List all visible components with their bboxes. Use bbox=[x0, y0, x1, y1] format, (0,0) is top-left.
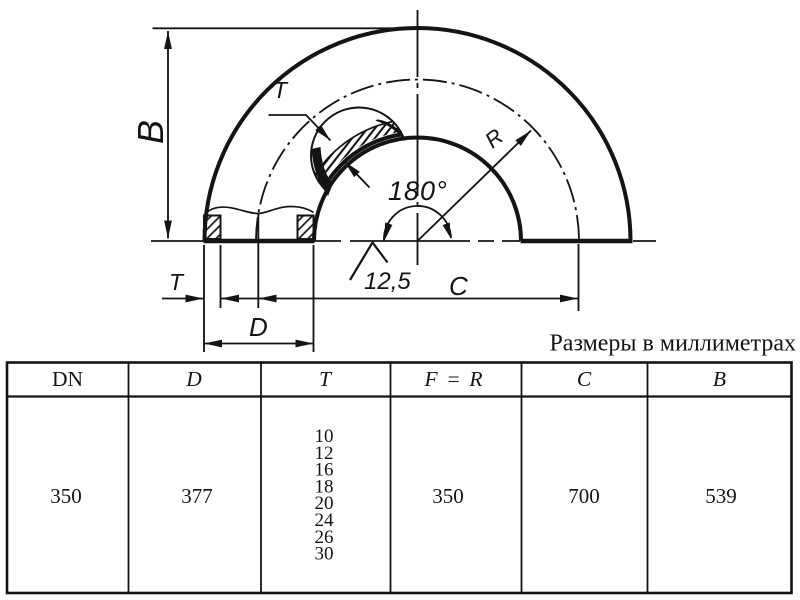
svg-text:B: B bbox=[713, 367, 726, 391]
extension line left inner bbox=[220, 245, 222, 308]
baseline left extension bbox=[151, 240, 204, 242]
extension line right of pipe end bbox=[313, 245, 315, 352]
extension line pipe centerline bbox=[257, 214, 259, 308]
table data texts bbox=[50, 484, 737, 508]
dimension B line bbox=[167, 31, 169, 239]
table column lines bbox=[129, 363, 648, 594]
roughness mark 12.5 bbox=[350, 243, 388, 281]
angle arc 180 bbox=[384, 206, 451, 241]
svg-text:F = R: F = R bbox=[424, 367, 483, 391]
extension line left outer bbox=[203, 245, 205, 352]
dimension C line bbox=[259, 298, 579, 300]
svg-text:C: C bbox=[577, 367, 592, 391]
section band top edge bbox=[296, 119, 540, 363]
dimension D line bbox=[204, 343, 314, 345]
svg-text:D: D bbox=[249, 312, 268, 342]
section lens outline bbox=[311, 108, 407, 204]
section dark wedge bbox=[312, 147, 334, 196]
dimension B extension line top bbox=[153, 27, 438, 29]
svg-text:C: C bbox=[449, 271, 468, 301]
section dark corner right bbox=[376, 120, 404, 141]
right wall hatched bbox=[298, 216, 314, 240]
vertical centerline bbox=[417, 10, 419, 265]
svg-text:Размеры в миллиметрах: Размеры в миллиметрах bbox=[549, 331, 796, 357]
table header texts bbox=[52, 367, 726, 391]
dimension T bottom right part bbox=[221, 298, 258, 300]
left end face bbox=[204, 239, 315, 244]
svg-text:B: B bbox=[130, 120, 171, 144]
section thickness arrow bbox=[345, 162, 370, 188]
svg-text:12,5: 12,5 bbox=[364, 268, 411, 295]
baseline right extension bbox=[633, 240, 656, 242]
extension line right pipe centerline bbox=[578, 244, 580, 311]
svg-text:180°: 180° bbox=[388, 176, 448, 206]
svg-text:30: 30 bbox=[315, 544, 334, 565]
svg-text:R: R bbox=[480, 124, 508, 154]
right end face bbox=[521, 239, 633, 244]
data T stack bbox=[315, 426, 335, 565]
svg-text:D: D bbox=[185, 367, 202, 391]
radius R line bbox=[418, 131, 532, 242]
svg-text:350: 350 bbox=[432, 484, 464, 508]
section bore edge arc bbox=[310, 133, 526, 349]
dimension T bottom left part bbox=[162, 298, 204, 300]
inner arc bbox=[314, 138, 521, 242]
outer arc bbox=[205, 28, 631, 241]
angle arc arrowhead left bbox=[384, 223, 392, 242]
svg-text:T: T bbox=[169, 269, 185, 295]
angle arc arrowhead right bbox=[443, 222, 451, 238]
section wall hatched band bbox=[296, 119, 540, 363]
svg-text:700: 700 bbox=[568, 484, 600, 508]
left wall hatched bbox=[204, 216, 221, 240]
table frame bbox=[7, 363, 792, 594]
svg-text:T: T bbox=[319, 367, 333, 391]
svg-text:377: 377 bbox=[181, 484, 213, 508]
svg-text:350: 350 bbox=[50, 484, 82, 508]
centerline arc (dash-dot) bbox=[256, 79, 579, 241]
svg-text:539: 539 bbox=[705, 484, 737, 508]
svg-text:T: T bbox=[273, 77, 289, 103]
svg-text:DN: DN bbox=[52, 367, 84, 391]
table header underline bbox=[7, 395, 792, 397]
break wavy line bbox=[204, 206, 314, 216]
horizontal centerline between faces bbox=[314, 240, 520, 242]
leader T upper bbox=[269, 115, 331, 141]
